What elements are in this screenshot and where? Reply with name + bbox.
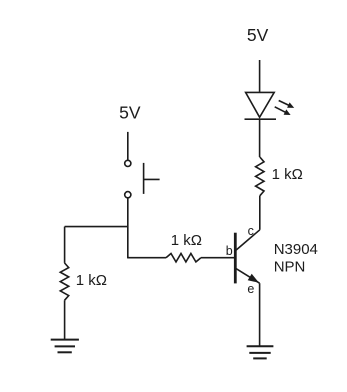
svg-text:c: c: [248, 224, 254, 238]
svg-text:5V: 5V: [247, 25, 269, 45]
svg-text:e: e: [247, 282, 254, 296]
svg-text:1 kΩ: 1 kΩ: [171, 232, 202, 249]
svg-text:1 kΩ: 1 kΩ: [76, 272, 107, 289]
svg-text:b: b: [226, 244, 233, 258]
svg-text:N3904: N3904: [274, 241, 318, 258]
svg-text:5V: 5V: [119, 102, 141, 122]
svg-text:1 kΩ: 1 kΩ: [272, 166, 303, 183]
svg-text:NPN: NPN: [274, 259, 306, 276]
